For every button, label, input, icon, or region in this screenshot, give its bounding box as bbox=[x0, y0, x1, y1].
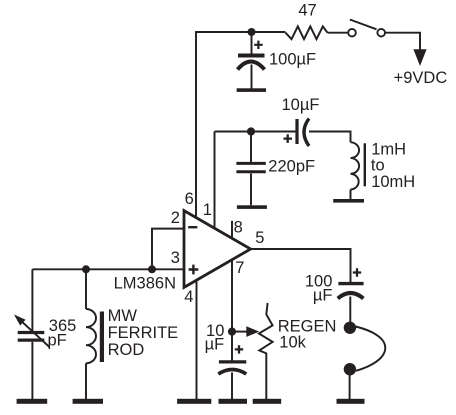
svg-text:10k: 10k bbox=[279, 333, 306, 351]
node pin7 bbox=[228, 328, 236, 336]
ground under C1 bbox=[237, 88, 266, 92]
svg-text:ROD: ROD bbox=[108, 341, 145, 359]
svg-text:100µF: 100µF bbox=[269, 51, 316, 69]
capacitor C3 220pF bbox=[250, 132, 252, 163]
capacitor C1 100uF bbox=[251, 32, 253, 54]
wire pin1 bbox=[214, 132, 216, 229]
svg-text:10mH: 10mH bbox=[371, 173, 415, 191]
wire C4 to jack bbox=[349, 297, 351, 323]
coil L2 MW ferrite rod bbox=[85, 269, 87, 309]
jack J1 top terminal bbox=[344, 322, 356, 334]
capacitor C5 10uF bottom bbox=[219, 360, 246, 363]
ground under L2 bbox=[73, 399, 103, 404]
wire left branch down bbox=[31, 269, 33, 331]
wire pin2 feedback bbox=[152, 229, 184, 270]
wire pin4 bbox=[196, 281, 198, 400]
svg-text:220pF: 220pF bbox=[268, 157, 315, 175]
jack J1 bottom terminal bbox=[344, 363, 356, 375]
wire pin5 output bbox=[251, 249, 351, 282]
wire switch to supply corner bbox=[385, 33, 420, 50]
wire jack to ground bbox=[349, 374, 351, 399]
node pin2 loop bbox=[148, 265, 156, 273]
resistor R1 47 bbox=[286, 26, 328, 39]
node coil top bbox=[82, 265, 90, 273]
ground under C3 bbox=[237, 205, 267, 209]
svg-text:µF: µF bbox=[313, 286, 333, 304]
switch S1 bbox=[348, 29, 356, 37]
svg-text:47: 47 bbox=[298, 1, 316, 19]
svg-text:2: 2 bbox=[171, 209, 180, 227]
svg-text:4: 4 bbox=[184, 288, 193, 306]
wire resistor to switch bbox=[328, 32, 349, 34]
svg-text:6: 6 bbox=[185, 190, 194, 208]
ground under L1 bbox=[333, 199, 364, 203]
svg-text:3: 3 bbox=[171, 249, 180, 267]
wire pin7 bbox=[231, 260, 233, 361]
ground under jack bbox=[337, 399, 365, 404]
svg-text:FERRITE: FERRITE bbox=[108, 324, 179, 342]
capacitor C2 10uF bbox=[295, 119, 298, 144]
op-amp U1 LM386N bbox=[184, 211, 251, 288]
jack J1 curve bbox=[356, 327, 386, 371]
wiper arrow to pot bbox=[236, 331, 248, 333]
svg-text:LM386N: LM386N bbox=[114, 275, 176, 293]
wire pin3 input rail bbox=[32, 268, 184, 270]
node 10uF rail bbox=[247, 127, 255, 135]
ground under C6 bbox=[17, 399, 48, 404]
svg-text:7: 7 bbox=[235, 259, 244, 277]
svg-text:+9VDC: +9VDC bbox=[394, 69, 448, 87]
svg-text:MW: MW bbox=[108, 307, 138, 325]
svg-text:5: 5 bbox=[255, 229, 264, 247]
potentiometer R2 REGEN 10k bbox=[259, 303, 273, 399]
wire pin8 stub bbox=[231, 221, 233, 239]
svg-text:pF: pF bbox=[48, 331, 67, 349]
svg-text:8: 8 bbox=[234, 219, 243, 237]
inductor L1 bbox=[351, 142, 360, 189]
supply arrow +9VDC bbox=[413, 49, 426, 66]
wire 10uF rail bbox=[215, 132, 351, 143]
ground under pin4 bbox=[177, 399, 211, 404]
wire pin6 supply bbox=[195, 31, 197, 218]
wire top rail left segment bbox=[196, 31, 286, 33]
node top rail bbox=[248, 28, 256, 36]
ground under C5 bbox=[219, 399, 248, 404]
variable capacitor C6 365pF bbox=[18, 331, 45, 334]
svg-text:1: 1 bbox=[203, 201, 212, 219]
capacitor C4 100uF output bbox=[338, 282, 363, 285]
svg-text:1mH: 1mH bbox=[371, 140, 406, 158]
svg-text:10µF: 10µF bbox=[282, 96, 320, 114]
ground under pot bbox=[253, 399, 282, 404]
svg-text:µF: µF bbox=[205, 336, 225, 354]
